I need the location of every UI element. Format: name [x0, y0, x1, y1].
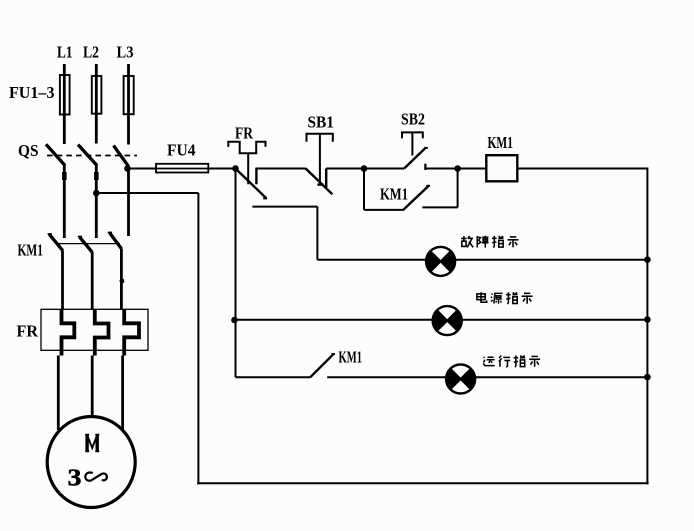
node rail power row: [644, 316, 651, 323]
wire KM1-3 to FR: [120, 249, 123, 310]
wire QS3 to KM1: [127, 167, 130, 237]
svg-text:SB2: SB2: [401, 109, 425, 128]
svg-text:L2: L2: [83, 43, 99, 62]
contact KM1 run NO blade: [310, 355, 333, 378]
fuse FU2: [92, 76, 102, 114]
wire L3 drop: [127, 64, 130, 76]
wire fault lamp row: [317, 259, 647, 261]
switch QS pole 1 blade: [46, 144, 65, 165]
wire L2 tap to return rail: [96, 192, 198, 194]
wire aux bottom left: [364, 209, 403, 211]
KM1 aux seal-in branch: left drop: [363, 169, 365, 210]
contactor KM1 pole 2 blade: [80, 237, 93, 252]
wire run row right: [327, 376, 647, 378]
label run indication 运行指示: [483, 355, 540, 367]
wire FR to motor U: [57, 356, 60, 431]
wire power lamp row: [236, 319, 648, 321]
lamp HL2 power: [433, 306, 462, 335]
node control junction at FR: [232, 165, 239, 172]
svg-text:KM1: KM1: [339, 347, 363, 366]
switch QS pole 3 blade: [114, 146, 129, 167]
wire coil to right rail: [517, 168, 647, 170]
wire KM1-2 to FR: [91, 252, 94, 310]
wire FR to motor W: [121, 356, 124, 431]
fuse FU3: [124, 76, 134, 114]
wire aux bottom right: [422, 206, 457, 208]
svg-text:SB1: SB1: [308, 112, 335, 131]
wire QS2 to KM1: [95, 165, 98, 239]
SB2 fixed terminal tick: [424, 164, 426, 170]
SB2 actuator stem: [411, 132, 413, 155]
svg-text:FU4: FU4: [167, 141, 196, 160]
svg-text:KM1: KM1: [488, 133, 514, 152]
FR NC fixed terminal tick: [255, 169, 257, 185]
wire L2 drop: [95, 64, 98, 76]
wire left return rail vertical: [197, 193, 199, 484]
svg-text:KM1: KM1: [18, 240, 44, 259]
wire fuse1 to QS: [63, 115, 66, 145]
pushbutton SB1 bracket: [307, 134, 333, 142]
lamp HL3 run: [446, 365, 475, 394]
FR NO throw wire to fault lamp: [252, 206, 317, 208]
wire SB2 junction to blade: [364, 168, 404, 170]
svg-text:FR: FR: [235, 124, 254, 143]
lamp HL1 fault: [426, 247, 455, 276]
node junction L3/FU4: [124, 165, 131, 172]
wire FR to motor V: [91, 356, 94, 417]
coil KM1: [486, 155, 517, 181]
svg-text:QS: QS: [18, 141, 39, 160]
thermal relay FR box: [41, 309, 148, 350]
QS linkage dashed line: [47, 155, 137, 157]
wire QS1 to KM1: [63, 165, 66, 239]
wire fuse2 to QS: [95, 114, 98, 144]
wire fuse3 to QS: [127, 114, 130, 144]
svg-text:L1: L1: [57, 43, 73, 62]
wire right rail: [646, 168, 648, 485]
wire run row left: [236, 376, 311, 378]
label fault indication 故障指示: [461, 236, 518, 248]
svg-text:FR: FR: [17, 322, 39, 341]
node SB2 left junction: [361, 165, 368, 172]
wire L1 drop: [63, 64, 66, 75]
motor label phase squiggle: [85, 472, 107, 480]
FR trip actuator bracket: [228, 142, 265, 153]
SB1 actuator stem: [319, 134, 321, 183]
svg-text:KM1: KM1: [380, 185, 408, 204]
svg-text:3: 3: [68, 465, 82, 492]
label power indication 电源指示: [477, 292, 533, 304]
contact KM1 aux NO blade: [403, 186, 428, 210]
wire bottom return: [197, 482, 648, 484]
wire coil left: [458, 168, 487, 170]
fuse FU4: [156, 164, 208, 173]
fuse FU1: [60, 75, 70, 115]
wire FR to SB1: [255, 168, 305, 170]
motor M circle: [47, 417, 135, 508]
wire aux right riser: [457, 169, 459, 208]
wire control drop to lamps: [235, 169, 237, 378]
contactor KM1 pole 1 blade: [49, 234, 63, 250]
FR heater element 2: [95, 310, 109, 356]
wire SB1 to SB2: [326, 168, 364, 170]
SB2 NO blade: [404, 148, 425, 168]
wire KM1-1 to FR: [61, 251, 64, 310]
node junction L2/control return: [93, 190, 100, 197]
wire SB2 to coil: [425, 168, 457, 170]
svg-text:FU1–3: FU1–3: [9, 83, 55, 102]
switch QS pole 2 blade: [78, 145, 97, 166]
node rail fault row: [644, 256, 651, 263]
node rail run row: [644, 374, 651, 381]
motor label M: [85, 435, 88, 452]
node coil left junction: [454, 165, 461, 172]
FR changeover blade: [236, 169, 266, 198]
contactor KM1 pole 3 blade: [110, 233, 122, 249]
SB1 NC blade: [305, 168, 332, 194]
SB1 fixed terminal tick: [325, 169, 327, 189]
svg-text:L3: L3: [117, 43, 134, 62]
pushbutton SB2 bracket: [402, 132, 423, 138]
FR actuator stem: [247, 153, 249, 184]
FR heater element 1: [62, 310, 75, 356]
FR heater element 3: [124, 310, 139, 356]
wire QS3 to FU4: [128, 168, 236, 170]
KM1 linkage line: [57, 243, 121, 245]
node power lamp tap: [231, 317, 238, 324]
